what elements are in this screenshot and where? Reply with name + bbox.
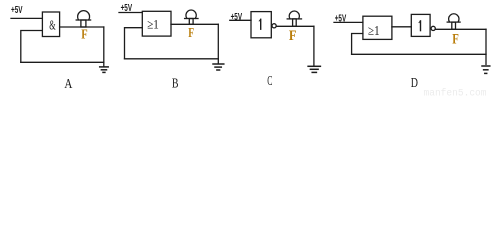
svg-text:≥1: ≥1 (368, 23, 380, 38)
lamp F (B) (185, 10, 198, 24)
wire: bottom rail (D) (352, 53, 486, 55)
wire: +5V to U3 input (C) (230, 19, 251, 21)
not-gate U3 output bubble (C) (272, 24, 276, 28)
wire: U4 output to U5 input (D) (392, 26, 411, 28)
wire: lamp node down to ground (B) (217, 24, 219, 63)
not-gate U5 output bubble (D) (431, 26, 435, 30)
wire: U2 second input loop to left (B) (125, 28, 143, 59)
wire: lamp node down to ground (D) (485, 29, 487, 64)
svg-text:+5V: +5V (11, 5, 23, 16)
svg-text:&: & (49, 17, 56, 32)
wire: bottom rail (B) (125, 58, 219, 60)
not-gate U3 box (C) (251, 12, 271, 38)
wire: +5V to U1 top input (A) (11, 17, 42, 19)
svg-text:F: F (452, 31, 459, 47)
or-gate U4 box (D) (363, 16, 392, 39)
wire: U1 second input loop to left (A) (21, 31, 42, 63)
wire: U1 output to lamp node (A) (60, 26, 104, 28)
ground (B) (213, 64, 224, 70)
wire: bubble to lamp node (C) (276, 25, 314, 27)
lamp F (C) (287, 11, 301, 26)
wire: bottom rail (A) (21, 61, 104, 63)
wire: U4 second input loop to left (D) (352, 34, 363, 55)
svg-text:F: F (188, 25, 194, 40)
svg-text:F: F (81, 28, 87, 43)
not-gate U5 symbol 1 (420, 21, 422, 31)
svg-text:D: D (411, 75, 418, 90)
svg-text:F: F (289, 28, 297, 44)
lamp F (A) (76, 11, 90, 27)
ground (A) (100, 67, 109, 73)
svg-text:B: B (172, 77, 179, 92)
wire: +5V to U2 top input (B) (119, 12, 142, 14)
and-gate U1 box (A) (42, 12, 59, 37)
or-gate U2 box (B) (142, 11, 171, 36)
wire: bubble to lamp node (D) (435, 28, 486, 30)
svg-text:≥1: ≥1 (147, 17, 159, 32)
wire: lamp node down to ground (A) (103, 27, 105, 66)
svg-text:manfen5.com: manfen5.com (424, 88, 487, 98)
wire: U2 output to lamp node (B) (171, 23, 218, 25)
ground (C) (308, 66, 320, 72)
lamp F (D) (447, 14, 460, 30)
wire: lamp node down to ground (C) (313, 26, 315, 65)
svg-text:C: C (267, 73, 272, 88)
wire: +5V to U4 top input (D) (334, 21, 363, 23)
not-gate U3 symbol 1 (260, 19, 262, 29)
svg-text:+5V: +5V (231, 12, 243, 23)
svg-text:A: A (64, 77, 73, 92)
not-gate U5 box (D) (411, 14, 430, 36)
ground (D) (482, 66, 490, 73)
